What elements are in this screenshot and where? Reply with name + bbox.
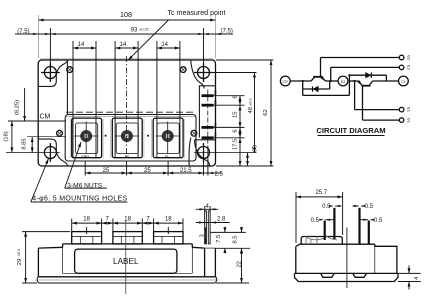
svg-text:18: 18 [124, 217, 131, 223]
svg-text:G1: G1 [407, 118, 412, 124]
svg-text:E2: E2 [214, 100, 218, 104]
svg-text:C2E1: C2E1 [81, 154, 89, 158]
svg-text:(18): (18) [4, 131, 10, 141]
svg-text:3: 3 [200, 234, 206, 237]
svg-text:4-φ6. 5 MOUNTING HOLES: 4-φ6. 5 MOUNTING HOLES [32, 195, 127, 202]
svg-text:G2: G2 [407, 55, 412, 61]
svg-text:14: 14 [120, 42, 127, 48]
svg-text:(7): (7) [252, 145, 258, 152]
svg-text:0.5: 0.5 [311, 218, 320, 224]
svg-text:E2: E2 [407, 65, 412, 71]
svg-text:14: 14 [78, 42, 85, 48]
svg-text:21.5: 21.5 [180, 168, 192, 174]
svg-text:2.5: 2.5 [215, 171, 224, 177]
svg-text:15: 15 [233, 111, 239, 117]
svg-text:18: 18 [165, 217, 172, 223]
svg-text:(8.25): (8.25) [15, 100, 21, 115]
svg-text:6: 6 [233, 129, 239, 132]
svg-text:22: 22 [237, 261, 243, 267]
svg-text:±0.3: ±0.3 [248, 99, 252, 106]
svg-text:C1: C1 [165, 154, 169, 158]
svg-text:25: 25 [144, 168, 151, 174]
svg-text:E2: E2 [341, 80, 345, 84]
svg-text:E2: E2 [125, 154, 129, 158]
svg-text:(7.5): (7.5) [221, 29, 233, 35]
svg-text:48: 48 [248, 107, 254, 113]
svg-text:25.7: 25.7 [315, 190, 327, 196]
svg-text:CM: CM [40, 114, 51, 121]
svg-text:E1: E1 [407, 107, 412, 113]
svg-text:±0.5: ±0.5 [17, 249, 21, 256]
svg-text:17.5: 17.5 [233, 139, 239, 150]
svg-text:18: 18 [83, 217, 90, 223]
svg-text:62: 62 [263, 109, 269, 115]
svg-text:(7.5): (7.5) [17, 29, 29, 35]
svg-text:0.5: 0.5 [374, 218, 383, 224]
svg-text:6: 6 [233, 95, 239, 98]
svg-text:E1: E1 [214, 122, 218, 126]
svg-text:8.85: 8.85 [22, 138, 28, 149]
svg-text:25: 25 [103, 168, 110, 174]
svg-text:2.8: 2.8 [217, 217, 226, 223]
svg-text:0.5: 0.5 [365, 204, 374, 210]
svg-text:108: 108 [120, 10, 132, 19]
svg-text:8.5: 8.5 [233, 235, 239, 243]
svg-text:93: 93 [131, 28, 138, 34]
svg-text:G1: G1 [214, 132, 218, 137]
svg-text:CIRCUIT DIAGRAM: CIRCUIT DIAGRAM [316, 126, 385, 135]
svg-text:C2E1: C2E1 [282, 80, 289, 84]
svg-text:7.5: 7.5 [216, 235, 222, 243]
svg-text:±0.25: ±0.25 [140, 28, 149, 32]
svg-text:G2: G2 [214, 90, 218, 95]
svg-text:29: 29 [17, 259, 23, 265]
svg-text:14: 14 [161, 42, 168, 48]
svg-text:C1: C1 [401, 80, 406, 84]
svg-text:Tc measured point: Tc measured point [168, 9, 226, 17]
